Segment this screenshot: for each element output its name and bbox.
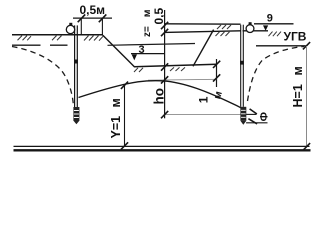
left filter bbox=[73, 107, 79, 121]
filter dim line bottom bbox=[246, 122, 267, 124]
gray lowered-level line 1 bbox=[148, 78, 217, 81]
left wellpoint pipe bbox=[74, 25, 76, 107]
dim tick left bbox=[78, 14, 86, 22]
water level mark triangle right bbox=[263, 25, 268, 30]
svg-text:0,5: 0,5 bbox=[152, 7, 166, 24]
svg-text:Ф: Ф bbox=[258, 112, 270, 121]
dimension 0,5m top-left: dim line bbox=[73, 17, 112, 19]
level mark 3: triangle bbox=[132, 54, 137, 60]
svg-text:z=: z= bbox=[142, 26, 153, 37]
collector line A (left pipe top to right pipe) bbox=[165, 23, 241, 25]
ground hatch group mid-left bbox=[52, 36, 62, 41]
level mark 3: line bbox=[131, 53, 165, 55]
extension line right (from dim to pit corner) bbox=[101, 18, 103, 35]
pit bottom line bbox=[134, 64, 217, 67]
right filter tip cone bbox=[240, 121, 246, 125]
tick H top bbox=[303, 42, 310, 49]
filter dim tick top bbox=[250, 109, 257, 114]
Y dimension line bbox=[124, 85, 126, 146]
tick Y bottom bbox=[121, 142, 128, 149]
UGV dashed line left y=45 bbox=[12, 44, 68, 46]
svg-text:9: 9 bbox=[267, 13, 273, 25]
line B (y=32.4) bbox=[165, 31, 241, 33]
extension line left (from dim to pipe top) bbox=[80, 18, 82, 35]
svg-text:0,5м: 0,5м bbox=[80, 3, 106, 17]
ground hatch group left-edge bbox=[18, 36, 32, 41]
central UGV line across pit bbox=[108, 44, 196, 46]
line B right piece (right UGV mark line) bbox=[243, 30, 269, 32]
tick pit bottom at central line bbox=[161, 63, 168, 70]
pit bottom hatches left group bbox=[134, 68, 143, 72]
depression arc between wellpoints bbox=[79, 81, 241, 108]
left pump circle bbox=[66, 25, 74, 33]
ground hatch group near pit edge bbox=[84, 36, 103, 41]
tick H bottom bbox=[303, 143, 310, 150]
drawdown dashed curve right bbox=[248, 47, 305, 102]
water hatches below right UGV mark bbox=[269, 32, 282, 37]
svg-text:1: 1 bbox=[197, 96, 211, 103]
svg-text:hо: hо bbox=[151, 88, 166, 105]
ground line left bbox=[12, 34, 103, 36]
svg-text:м: м bbox=[141, 9, 153, 17]
svg-text:м: м bbox=[109, 98, 123, 107]
right pump circle bbox=[246, 25, 254, 33]
dim tick right bbox=[99, 14, 107, 22]
right filter bbox=[240, 107, 246, 121]
aquiclude upper line bbox=[14, 145, 310, 147]
tick on central line at line A bbox=[161, 22, 168, 29]
tick on central line at gray line 2 bbox=[161, 111, 168, 118]
left pipe coupling bbox=[74, 60, 78, 64]
svg-text:3: 3 bbox=[139, 44, 145, 56]
gray line 2 (wellpoint tip level) bbox=[165, 114, 246, 116]
line A right piece (under label 9) bbox=[254, 23, 294, 25]
filter dim tick bottom bbox=[248, 119, 257, 124]
pit left slope bbox=[103, 35, 135, 67]
svg-text:УГВ: УГВ bbox=[284, 30, 307, 44]
central dimension line bbox=[164, 10, 166, 118]
tick Y top (on arc) bbox=[121, 82, 128, 89]
soil hatches below line B bbox=[216, 32, 230, 36]
dim line 1m vertical bbox=[216, 59, 218, 87]
right natural UGV line bbox=[256, 45, 306, 47]
aquiclude lower thick line bbox=[14, 149, 311, 151]
svg-text:H=1: H=1 bbox=[291, 84, 305, 107]
tick 1m dim bottom bbox=[213, 74, 220, 81]
drawdown dashed curve left bbox=[12, 47, 73, 106]
svg-text:м: м bbox=[291, 66, 305, 75]
filter dim line top bbox=[246, 113, 256, 115]
tick on central line at gray line 1 bbox=[161, 76, 168, 83]
H dimension line bbox=[306, 46, 308, 147]
right wellpoint pipe bbox=[240, 25, 242, 107]
right circle nub bbox=[249, 22, 252, 24]
svg-text:Y=1: Y=1 bbox=[109, 116, 123, 139]
soil hatches below line A bbox=[217, 25, 231, 29]
right pipe coupling bbox=[240, 61, 244, 65]
pit right slope bbox=[193, 30, 214, 67]
tick on central line at line B bbox=[161, 29, 168, 36]
left circle nub bbox=[69, 23, 72, 26]
tick at pit-bottom right end (1m dim top) bbox=[213, 61, 220, 68]
pit bottom hatches right group bbox=[170, 67, 185, 71]
